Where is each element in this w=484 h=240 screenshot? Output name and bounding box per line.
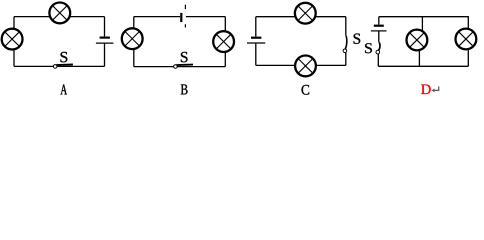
battery (C left): short thick plate — [251, 37, 261, 39]
battery (D left): long thin plate — [371, 30, 387, 32]
wire: C bottom — [256, 64, 346, 66]
wire: B top left (to battery) — [134, 16, 180, 18]
wire: A right upper (to battery) — [104, 17, 106, 37]
lamp L5 (C top) — [295, 3, 316, 24]
label S (B switch) — [181, 52, 188, 62]
switch pivot (C right) — [343, 49, 347, 53]
label D (red) — [421, 85, 431, 95]
wire: B left — [133, 17, 135, 67]
label S (C switch) — [354, 34, 361, 44]
switch blade (B) — [177, 64, 194, 67]
lamp L8 (D right) — [456, 29, 477, 50]
wire: D bottom — [378, 65, 468, 67]
battery (D left): short thick plate — [374, 25, 384, 27]
battery (A right): short thick plate — [100, 36, 110, 38]
wire: D left lower (from switch) — [377, 54, 379, 66]
wire: B right — [224, 17, 226, 67]
wire: D right branch — [467, 17, 469, 67]
switch pivot (B) — [174, 65, 178, 69]
lamp L6 (C bottom) — [295, 56, 316, 77]
wire: A top — [14, 16, 105, 18]
wire: B bottom — [134, 66, 226, 68]
label A — [61, 85, 68, 95]
wire: D middle branch lower — [418, 51, 420, 67]
lamp L1 (A top) — [49, 3, 70, 24]
wire: C right upper (to switch) — [345, 17, 347, 36]
label C — [302, 85, 310, 95]
wire: C right lower (from switch) — [345, 53, 347, 66]
wire: C left lower (from battery) — [255, 44, 257, 66]
wire: A bottom — [14, 65, 105, 67]
switch blade (A) — [56, 64, 73, 67]
lamp L7 (D middle) — [407, 30, 428, 51]
label S (A switch) — [61, 52, 68, 62]
wire: B top right (from battery) — [186, 16, 225, 18]
wire: D top — [379, 16, 469, 18]
battery (C left): long thin plate — [247, 42, 265, 44]
switch blade (C right) — [345, 36, 347, 50]
wire: C left upper (to battery) — [255, 17, 257, 37]
wire: A right lower (from battery) — [104, 43, 106, 66]
lamp L2 (A left) — [2, 29, 23, 50]
switch pivot (A) — [53, 65, 57, 69]
wire: D left upper (to battery) — [378, 17, 380, 25]
wire: D left middle (battery to switch) — [378, 32, 380, 43]
lamp L4 (B right) — [213, 31, 234, 52]
paragraph return mark (gray) — [434, 86, 439, 90]
battery (A right): long thin plate — [96, 42, 114, 44]
switch blade (D left) — [379, 42, 380, 50]
wire: D middle branch upper — [421, 17, 423, 31]
wire: C top — [256, 16, 346, 18]
battery (B top): long thin plate (dashed) — [184, 5, 186, 28]
label S (D switch) — [365, 43, 372, 53]
wire: A left — [13, 17, 15, 67]
lamp L3 (B left) — [122, 28, 143, 49]
switch pivot (D left) — [376, 50, 380, 54]
battery (B top): short thick plate — [180, 13, 182, 22]
label B — [181, 85, 188, 95]
